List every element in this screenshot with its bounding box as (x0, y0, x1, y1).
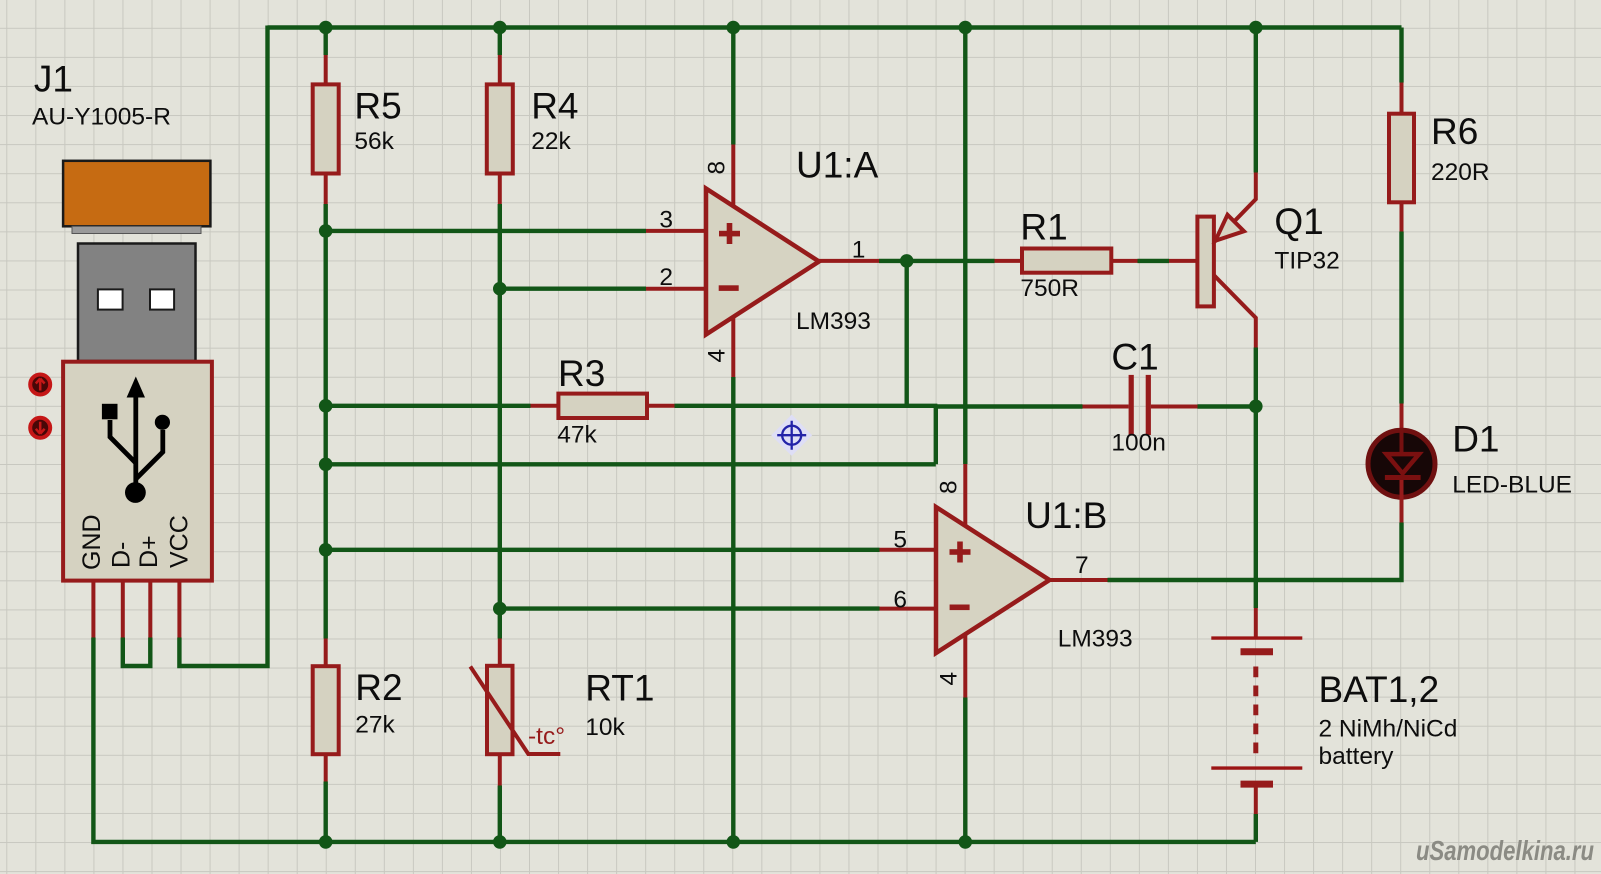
svg-text:TIP32: TIP32 (1274, 247, 1339, 274)
svg-text:4: 4 (704, 349, 731, 363)
svg-text:2 NiMh/NiCd: 2 NiMh/NiCd (1319, 715, 1458, 742)
resistor R6 (1389, 83, 1490, 232)
wire R1 to Q1 base green segment (1138, 259, 1170, 263)
wire R3 row right (675, 404, 938, 408)
svg-text:7: 7 (1075, 552, 1089, 579)
svg-text:3: 3 (659, 207, 673, 234)
wire RT1 to ground bus (498, 786, 502, 842)
svg-text:J1: J1 (34, 59, 73, 100)
wire U1:B output row to LED (1108, 523, 1402, 581)
svg-text:1: 1 (852, 236, 866, 263)
wire U1:A output row (879, 259, 995, 263)
wire left border vertical and VCC link (179, 26, 267, 667)
svg-text:8: 8 (704, 161, 731, 175)
junction C1 Q1 battery node (1249, 400, 1263, 414)
svg-text:U1:B: U1:B (1025, 495, 1107, 536)
svg-text:R2: R2 (355, 667, 402, 708)
wire node pin3 row (326, 229, 646, 233)
svg-text:10k: 10k (585, 714, 625, 741)
wire U1:B pin5 row (326, 548, 880, 552)
wire C1 row left (936, 404, 1083, 408)
wire node row 464 (326, 462, 936, 466)
wire U1:B pin4 to ground bus (963, 698, 967, 842)
op-amp U1:A (646, 145, 879, 378)
junction row 464 (319, 458, 333, 472)
svg-text:8: 8 (936, 480, 963, 494)
svg-text:5: 5 (893, 526, 907, 553)
wire GND down and bottom ground bus (93, 638, 1255, 842)
wire R2 to ground bus (324, 782, 328, 842)
wire R5 bus middle (324, 204, 328, 639)
LED D1 (1368, 404, 1572, 523)
junction pin5 row (319, 543, 333, 557)
wire U1:B pin8 supply column (963, 28, 967, 465)
svg-text:D-: D- (108, 542, 136, 568)
wire R6 to LED (1399, 232, 1403, 404)
wire battery bottom to ground bus (1254, 814, 1258, 842)
svg-text:LM393: LM393 (1058, 626, 1133, 653)
thermistor RT1 (470, 639, 654, 786)
svg-text:R3: R3 (558, 353, 605, 394)
resistor R1 (995, 206, 1138, 302)
resistor R3 (531, 353, 675, 449)
svg-text:R1: R1 (1020, 206, 1067, 247)
svg-text:C1: C1 (1111, 337, 1158, 378)
wire R4 bus middle (498, 204, 502, 639)
wire Q1 emitter supply (1254, 28, 1258, 173)
junction top bus at R4 (493, 21, 507, 35)
wire R6 top (1399, 28, 1403, 83)
junction ground bus at RT1 (493, 835, 507, 849)
transistor Q1 (1169, 173, 1340, 348)
svg-text:D+: D+ (135, 535, 163, 568)
wire D- D+ link (123, 638, 151, 667)
wire U1:A pin8 supply (731, 28, 735, 145)
svg-text:LED-BLUE: LED-BLUE (1452, 472, 1572, 499)
svg-text:LM393: LM393 (796, 308, 871, 335)
junction top bus at U1:A pin8 (727, 21, 741, 35)
svg-text:R5: R5 (354, 85, 401, 126)
svg-text:battery: battery (1319, 743, 1395, 770)
junction pin2 row (493, 282, 507, 296)
svg-text:Q1: Q1 (1274, 201, 1323, 242)
resistor R4 (487, 55, 579, 204)
junction top bus at U1:B pin8 (959, 21, 973, 35)
wire top supply bus (268, 25, 1402, 29)
marker arrow up (30, 375, 50, 395)
resistor R5 (313, 55, 402, 204)
op-amp U1:B (880, 464, 1133, 698)
wire R5 bus top (324, 28, 328, 56)
wire output junction down (905, 261, 909, 406)
junction pin3 row (319, 224, 333, 238)
svg-text:27k: 27k (355, 712, 395, 739)
wire node pin2 row (500, 287, 646, 291)
resistor R2 (313, 639, 403, 782)
junction ground bus at R2 (319, 835, 333, 849)
junction U1:A output (900, 254, 914, 268)
capacitor C1 (1083, 337, 1198, 457)
svg-text:4: 4 (936, 672, 963, 686)
wire node to battery top (1254, 406, 1258, 608)
junction ground bus at U1:B pin4 (959, 835, 973, 849)
svg-text:VCC: VCC (166, 515, 194, 568)
svg-text:6: 6 (893, 586, 907, 613)
wire R4 bus top (498, 28, 502, 56)
wire U1:B pin6 row (500, 606, 880, 610)
marker arrow down (30, 418, 50, 438)
svg-text:AU-Y1005-R: AU-Y1005-R (32, 104, 171, 131)
svg-text:BAT1,2: BAT1,2 (1319, 669, 1440, 710)
svg-text:56k: 56k (354, 128, 394, 155)
wire C1 row right (1198, 404, 1256, 408)
wire Q1 collector to node (1254, 348, 1258, 407)
junction pin6 row (493, 602, 507, 616)
svg-text:22k: 22k (531, 128, 571, 155)
svg-text:750R: 750R (1020, 275, 1079, 302)
origin marker crosshair (771, 415, 812, 456)
svg-text:47k: 47k (557, 422, 597, 449)
svg-text:2: 2 (659, 264, 673, 291)
wire U1:A pin4 to ground bus (731, 377, 735, 842)
svg-text:R6: R6 (1431, 111, 1478, 152)
junction top bus at R5 (319, 21, 333, 35)
USB connector J1 (32, 59, 212, 638)
battery BAT1,2 (1211, 608, 1457, 814)
svg-text:100n: 100n (1111, 430, 1166, 457)
junction ground bus at U1:A pin4 (727, 835, 741, 849)
svg-text:RT1: RT1 (585, 667, 654, 708)
svg-text:U1:A: U1:A (796, 145, 879, 186)
junction top bus at Q1 emitter (1249, 21, 1263, 35)
svg-text:-tc°: -tc° (528, 723, 565, 750)
wire R3 row left (326, 404, 531, 408)
svg-text:220R: 220R (1431, 159, 1490, 186)
svg-text:D1: D1 (1452, 418, 1499, 459)
junction R3 row (319, 399, 333, 413)
svg-text:uSamodelkina.ru: uSamodelkina.ru (1416, 835, 1594, 866)
wire jog down (934, 405, 938, 465)
svg-text:R4: R4 (531, 85, 578, 126)
svg-text:GND: GND (78, 514, 106, 570)
